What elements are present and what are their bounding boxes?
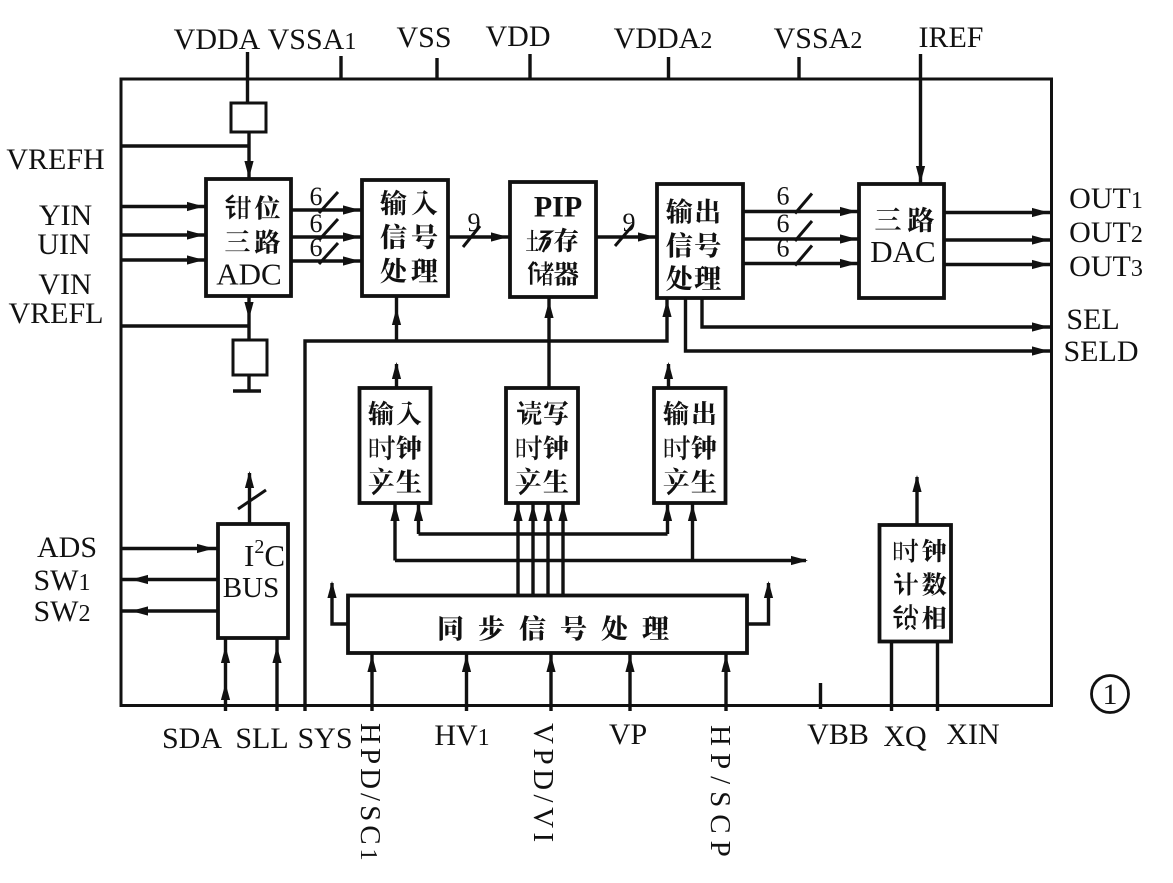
svg-text:SDA: SDA <box>162 722 222 755</box>
svg-text:DAC: DAC <box>870 234 935 269</box>
svg-text:VDDA: VDDA <box>174 23 261 56</box>
svg-text:6: 6 <box>310 233 323 262</box>
svg-text:VSS: VSS <box>396 21 451 54</box>
svg-text:XIN: XIN <box>946 718 999 751</box>
svg-text:VREFL: VREFL <box>8 297 103 330</box>
svg-text:SEL: SEL <box>1066 303 1119 336</box>
svg-text:VSSA2: VSSA2 <box>774 22 863 55</box>
svg-text:HPD/SC1: HPD/SC1 <box>354 723 386 865</box>
svg-text:6: 6 <box>777 234 790 263</box>
svg-text:PIP: PIP <box>534 191 582 224</box>
svg-text:1: 1 <box>1103 678 1118 711</box>
svg-text:SELD: SELD <box>1064 335 1139 368</box>
svg-text:ADS: ADS <box>37 531 97 564</box>
svg-text:I2C: I2C <box>244 536 285 573</box>
svg-text:9: 9 <box>468 208 481 237</box>
svg-text:VDD: VDD <box>486 20 551 53</box>
svg-text:VP: VP <box>609 718 647 751</box>
svg-text:SYS: SYS <box>297 722 352 755</box>
svg-text:VREFH: VREFH <box>6 143 104 176</box>
svg-text:VBB: VBB <box>807 718 869 751</box>
svg-text:IREF: IREF <box>918 21 983 54</box>
svg-text:VDDA2: VDDA2 <box>614 22 713 55</box>
svg-text:HP/SCP: HP/SCP <box>704 725 736 864</box>
svg-text:VSSA1: VSSA1 <box>268 23 357 56</box>
svg-text:UIN: UIN <box>37 228 90 261</box>
svg-text:XQ: XQ <box>883 720 927 753</box>
svg-text:BUS: BUS <box>223 572 279 604</box>
svg-text:9: 9 <box>623 208 636 237</box>
svg-text:SLL: SLL <box>235 722 288 755</box>
svg-text:VPD/VI: VPD/VI <box>527 723 559 847</box>
svg-text:ADC: ADC <box>216 257 281 292</box>
svg-text:6: 6 <box>777 182 790 211</box>
svg-text:6: 6 <box>310 182 323 211</box>
